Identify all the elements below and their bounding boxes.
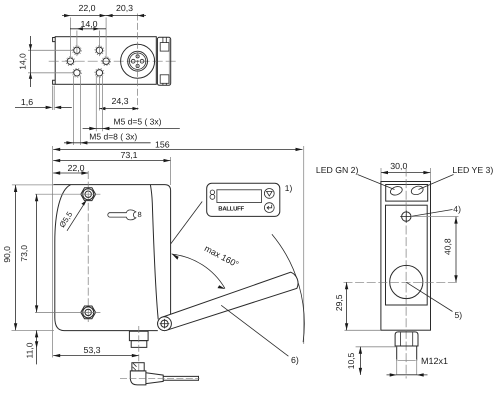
svg-text:29,5: 29,5 [334, 294, 344, 311]
lens circle [390, 265, 423, 298]
dim 10,5 [346, 347, 397, 375]
svg-text:22,0: 22,0 [67, 163, 84, 173]
svg-text:M12x1: M12x1 [421, 356, 448, 366]
svg-text:14,0: 14,0 [17, 53, 27, 70]
M5 hole bottom-left [72, 68, 81, 77]
svg-text:10,5: 10,5 [346, 352, 356, 369]
svg-text:6): 6) [291, 355, 299, 365]
svg-text:LED YE 3): LED YE 3) [452, 165, 493, 175]
label 6) with leader [221, 305, 299, 365]
svg-text:90,0: 90,0 [2, 246, 12, 263]
svg-text:30,0: 30,0 [390, 161, 407, 171]
dim 73,0 [19, 194, 39, 312]
dim M12x1 [387, 356, 449, 377]
M5 hole top-left [72, 45, 81, 57]
svg-text:22,0: 22,0 [78, 3, 95, 13]
teach button circle 4) [400, 211, 412, 223]
display module (magnified) [207, 183, 280, 216]
svg-text:53,3: 53,3 [83, 345, 100, 355]
svg-text:11,0: 11,0 [25, 342, 35, 358]
svg-text:LED GN 2): LED GN 2) [316, 165, 359, 175]
M5 d=5 leader (hole projection lines) [83, 76, 180, 131]
M5 d=8 leader (hole projection lines) [64, 76, 151, 145]
dim 40,8 [411, 217, 459, 283]
svg-text:24,3: 24,3 [111, 96, 128, 106]
lens horizontal center line [344, 281, 459, 283]
dim 11,0 [25, 330, 39, 364]
svg-text:BALLUFF: BALLUFF [218, 206, 244, 213]
dim 22,0 (front) [53, 163, 88, 175]
dim 22,0 (top) [62, 3, 114, 58]
svg-text:40,8: 40,8 [442, 238, 452, 255]
svg-text:14,0: 14,0 [80, 19, 97, 29]
dim 73,1 [53, 150, 170, 185]
top view body outline [55, 37, 156, 85]
side view LED cap window [386, 185, 428, 202]
bottom shaft hex nut [35, 306, 100, 319]
dim 30,0 [381, 161, 430, 181]
LED yellow oval [410, 185, 424, 196]
label 5) with leader [406, 282, 462, 320]
dim 24,3 [99, 77, 138, 111]
angled cable plug [120, 363, 200, 385]
M12 nut (side view) [395, 332, 418, 346]
side view inner face rect [386, 205, 428, 305]
actuator arm (lever) [158, 272, 298, 330]
dim 53,3 [53, 345, 139, 357]
dim 20,3 (top) [106, 3, 146, 17]
svg-text:5): 5) [455, 310, 463, 320]
label 4) with leader [411, 204, 461, 216]
M5 hole top-right [95, 45, 104, 57]
dim 14,0 (left vertical) [17, 36, 73, 87]
label LED YE 3) with leader [419, 165, 494, 189]
shaft center vertical line [87, 171, 89, 322]
M12 connector circle (top view) [121, 44, 155, 78]
front M12 connector stub [129, 331, 148, 347]
connector center line (front) [138, 326, 140, 372]
dim 156 [52, 139, 303, 357]
svg-text:20,3: 20,3 [116, 3, 133, 13]
svg-text:M5 d=5 ( 3x): M5 d=5 ( 3x) [114, 117, 162, 127]
svg-text:8: 8 [138, 210, 142, 219]
svg-text:73,0: 73,0 [19, 245, 29, 262]
front face plate outline [55, 185, 158, 331]
label LED GN 2) with leader [316, 165, 395, 189]
side view center vertical line [405, 168, 407, 379]
label Ø5,5 with leader [58, 200, 87, 231]
dim 90,0 [2, 185, 54, 331]
arm sweep arc [272, 234, 304, 342]
dim 29,5 [334, 282, 381, 330]
LED green oval [389, 185, 403, 196]
connector vertical center line [137, 14, 139, 111]
svg-text:156: 156 [155, 139, 170, 149]
side view body [381, 182, 431, 331]
svg-text:M5 d=8 ( 3x): M5 d=8 ( 3x) [89, 132, 137, 142]
M5 hole middle-right [102, 57, 111, 66]
svg-text:4): 4) [453, 204, 461, 214]
top view left flange tabs (1.6mm plate) [53, 38, 56, 85]
svg-text:73,1: 73,1 [120, 150, 137, 160]
M5 hole bottom-right [95, 68, 104, 77]
mounting bracket (top view right) [157, 37, 170, 85]
dim 1,6 [15, 86, 72, 111]
front body outline [54, 185, 171, 331]
leader from display module to body [171, 202, 202, 244]
M5 hole middle-left [66, 57, 75, 66]
svg-text:1): 1) [285, 183, 293, 193]
top shaft hex nut [35, 188, 100, 201]
M12 thread cylinder [397, 346, 417, 375]
top view horizontal center line [49, 60, 176, 62]
max 160 arc [171, 243, 240, 289]
wrench size 8 symbol [108, 210, 142, 220]
svg-text:1,6: 1,6 [21, 97, 33, 107]
dim 14,0 (top horizontal) [70, 19, 106, 47]
